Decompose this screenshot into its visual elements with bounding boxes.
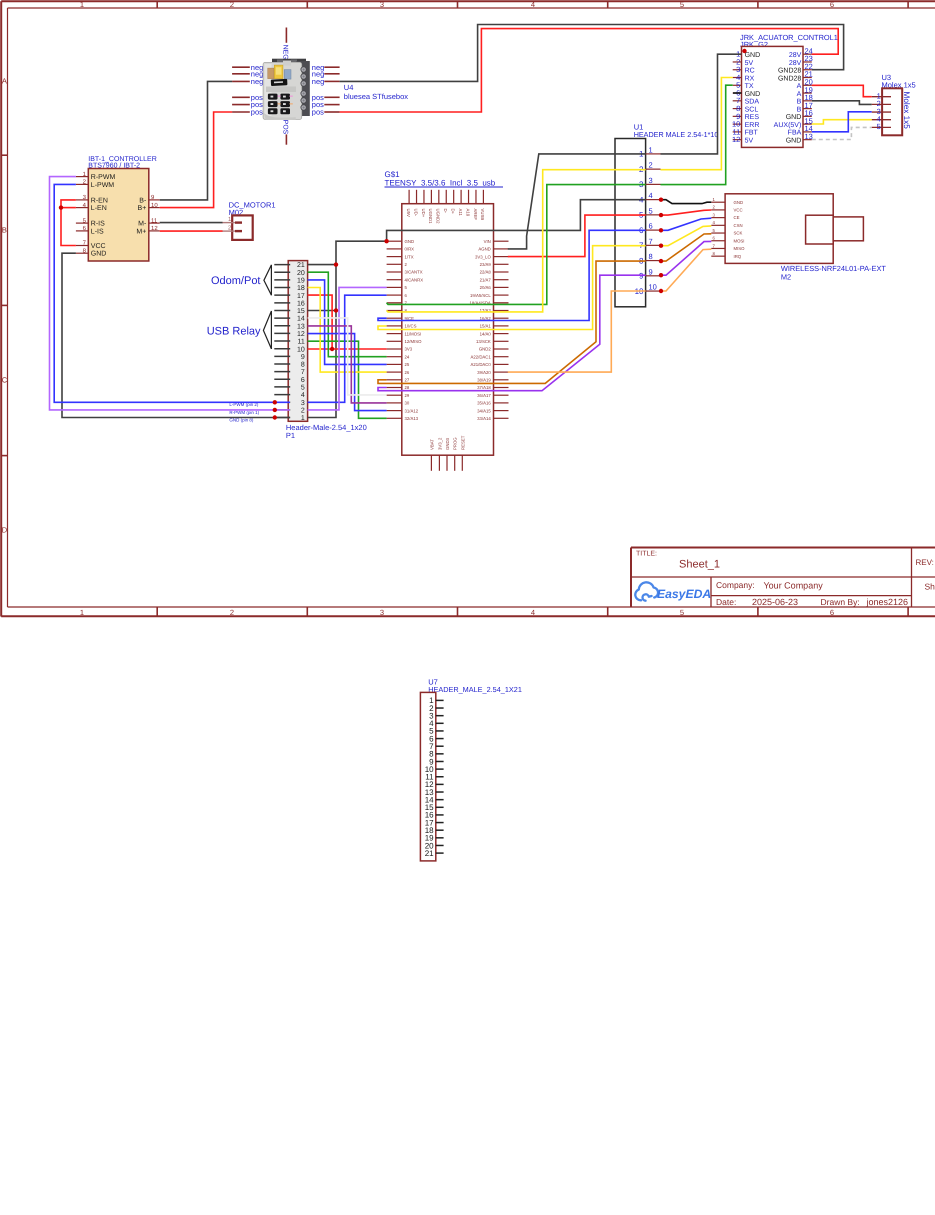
- svg-text:RES: RES: [745, 114, 760, 121]
- svg-text:PROG: PROG: [453, 437, 458, 450]
- svg-text:UGND1: UGND1: [428, 209, 433, 225]
- svg-text:0/RX: 0/RX: [405, 247, 415, 252]
- svg-text:19/A5/SCL: 19/A5/SCL: [470, 293, 491, 298]
- svg-text:Drawn By:: Drawn By:: [821, 597, 860, 607]
- svg-text:3: 3: [301, 400, 305, 407]
- svg-text:1: 1: [80, 0, 84, 9]
- svg-text:4: 4: [301, 392, 305, 399]
- svg-text:16: 16: [297, 300, 305, 307]
- svg-text:Sheet_1: Sheet_1: [679, 558, 720, 570]
- svg-text:Your Company: Your Company: [764, 581, 824, 591]
- svg-text:33/A14: 33/A14: [477, 416, 491, 421]
- svg-text:10: 10: [297, 346, 305, 353]
- svg-text:4: 4: [531, 608, 535, 617]
- svg-text:5: 5: [680, 608, 684, 617]
- svg-text:FBA: FBA: [788, 130, 802, 137]
- svg-text:5: 5: [649, 206, 653, 215]
- svg-text:6: 6: [830, 608, 834, 617]
- svg-text:6: 6: [301, 377, 305, 384]
- svg-text:38/A19: 38/A19: [477, 378, 491, 383]
- svg-text:TITLE:: TITLE:: [636, 551, 657, 558]
- svg-text:B+: B+: [138, 205, 147, 212]
- svg-text:AUX(5V): AUX(5V): [774, 121, 802, 129]
- svg-text:35/A16: 35/A16: [477, 401, 491, 406]
- svg-text:B: B: [2, 226, 7, 235]
- svg-text:10: 10: [649, 283, 657, 292]
- svg-text:31/A12: 31/A12: [405, 408, 419, 413]
- svg-text:18: 18: [297, 285, 305, 292]
- svg-text:AGND: AGND: [478, 247, 490, 252]
- svg-text:L-EN: L-EN: [91, 205, 107, 212]
- svg-text:M-: M-: [138, 221, 147, 228]
- svg-text:26: 26: [405, 370, 410, 375]
- svg-text:EasyEDA: EasyEDA: [657, 587, 711, 601]
- svg-text:3V3_2: 3V3_2: [437, 437, 442, 450]
- svg-text:4/CANRX: 4/CANRX: [405, 277, 424, 282]
- svg-text:VCC: VCC: [734, 208, 743, 213]
- svg-text:7: 7: [301, 369, 305, 376]
- svg-text:C: C: [2, 376, 8, 385]
- svg-text:8: 8: [301, 362, 305, 369]
- svg-text:TX: TX: [745, 83, 754, 90]
- svg-text:M+: M+: [136, 228, 146, 235]
- svg-text:20/A6: 20/A6: [480, 285, 492, 290]
- svg-text:IRQ: IRQ: [734, 254, 742, 259]
- svg-text:L-PWM: L-PWM: [91, 182, 115, 189]
- svg-text:AREF: AREF: [473, 209, 478, 221]
- svg-text:25: 25: [405, 362, 410, 367]
- svg-text:24: 24: [405, 354, 410, 359]
- svg-text:29: 29: [405, 393, 410, 398]
- svg-text:L-IS: L-IS: [91, 228, 104, 235]
- svg-text:Odom/Pot: Odom/Pot: [211, 275, 261, 287]
- svg-text:36/A17: 36/A17: [477, 393, 491, 398]
- svg-text:R-IS: R-IS: [91, 221, 105, 228]
- svg-text:4: 4: [531, 0, 535, 9]
- svg-text:GND3: GND3: [445, 437, 450, 450]
- svg-text:13: 13: [297, 323, 305, 330]
- svg-text:6: 6: [830, 0, 834, 9]
- svg-text:A: A: [797, 91, 802, 98]
- svg-text:6: 6: [649, 222, 653, 231]
- svg-text:R-PWM: R-PWM: [91, 174, 116, 181]
- svg-text:12: 12: [151, 225, 158, 232]
- svg-text:pos: pos: [312, 108, 324, 117]
- svg-text:37/A18: 37/A18: [477, 385, 491, 390]
- svg-text:CSN: CSN: [734, 223, 743, 228]
- svg-text:MISO: MISO: [734, 246, 746, 251]
- svg-text:27: 27: [405, 378, 410, 383]
- svg-text:GND2: GND2: [479, 347, 492, 352]
- svg-text:21: 21: [425, 849, 434, 858]
- svg-text:MOSI: MOSI: [734, 238, 745, 243]
- svg-text:A21/DAC0: A21/DAC0: [470, 362, 491, 367]
- svg-text:9: 9: [301, 354, 305, 361]
- svg-text:7: 7: [649, 237, 653, 246]
- svg-text:11: 11: [298, 339, 305, 346]
- svg-text:1/TX: 1/TX: [405, 254, 414, 259]
- svg-text:15/A1: 15/A1: [480, 324, 492, 329]
- svg-text:34/A15: 34/A15: [477, 408, 491, 413]
- svg-text:1: 1: [301, 415, 305, 422]
- svg-text:10/CS: 10/CS: [405, 324, 417, 329]
- svg-text:RX: RX: [745, 75, 755, 82]
- svg-text:neg: neg: [251, 77, 264, 86]
- svg-text:28V: 28V: [789, 52, 802, 59]
- svg-text:5V: 5V: [745, 60, 754, 67]
- svg-text:VIN: VIN: [484, 239, 491, 244]
- svg-text:39/A20: 39/A20: [477, 370, 491, 375]
- svg-text:11: 11: [151, 217, 158, 224]
- svg-text:28: 28: [405, 385, 410, 390]
- svg-text:D: D: [2, 526, 8, 535]
- svg-text:RESET: RESET: [460, 435, 465, 450]
- svg-text:D-: D-: [443, 209, 448, 214]
- svg-text:A11: A11: [458, 209, 463, 217]
- svg-text:Molex 1x5: Molex 1x5: [902, 92, 911, 130]
- svg-text:USB Relay: USB Relay: [207, 325, 261, 337]
- svg-text:GND: GND: [745, 52, 761, 59]
- svg-text:A10: A10: [465, 209, 470, 217]
- svg-text:RC: RC: [745, 68, 755, 75]
- svg-text:GND: GND: [405, 239, 415, 244]
- svg-text:GND: GND: [786, 114, 802, 121]
- svg-text:8: 8: [649, 252, 653, 261]
- svg-text:2025-06-23: 2025-06-23: [752, 597, 798, 607]
- svg-text:15: 15: [297, 308, 305, 315]
- svg-text:POS: POS: [281, 120, 288, 135]
- svg-text:R-EN: R-EN: [91, 197, 108, 204]
- svg-text:VBAT: VBAT: [429, 439, 434, 450]
- svg-text:28V: 28V: [789, 60, 802, 67]
- svg-text:U4: U4: [344, 83, 354, 92]
- svg-text:D+: D+: [450, 209, 455, 215]
- svg-text:GND28: GND28: [778, 75, 801, 82]
- svg-text:17: 17: [297, 293, 305, 300]
- svg-text:B: B: [797, 106, 802, 113]
- svg-text:4: 4: [649, 191, 653, 200]
- svg-text:3: 3: [649, 176, 653, 185]
- svg-text:SCL: SCL: [745, 106, 759, 113]
- svg-text:neg: neg: [312, 77, 325, 86]
- svg-text:3: 3: [380, 0, 384, 9]
- svg-text:A: A: [797, 83, 802, 90]
- svg-text:P1: P1: [286, 431, 295, 440]
- svg-text:1: 1: [649, 145, 653, 154]
- svg-text:12: 12: [732, 135, 740, 144]
- svg-text:pos: pos: [251, 108, 263, 117]
- svg-text:A: A: [2, 77, 7, 86]
- svg-text:B: B: [797, 99, 802, 106]
- svg-text:9: 9: [639, 272, 644, 281]
- svg-text:21/A7: 21/A7: [480, 277, 492, 282]
- svg-text:CE: CE: [734, 215, 740, 220]
- svg-text:2: 2: [301, 407, 305, 414]
- svg-text:5V: 5V: [745, 137, 754, 144]
- svg-text:20: 20: [297, 270, 305, 277]
- svg-text:SCK: SCK: [734, 231, 743, 236]
- svg-text:ERR: ERR: [745, 122, 760, 129]
- svg-text:GND: GND: [91, 251, 107, 258]
- svg-text:32/A13: 32/A13: [405, 416, 419, 421]
- svg-text:FBT: FBT: [745, 130, 759, 137]
- svg-text:GND: GND: [745, 91, 761, 98]
- svg-text:21: 21: [297, 262, 305, 269]
- svg-text:5: 5: [680, 0, 684, 9]
- svg-text:13/SCK: 13/SCK: [476, 339, 491, 344]
- svg-text:GND: GND: [734, 200, 744, 205]
- svg-text:10: 10: [151, 202, 158, 209]
- svg-text:HEADER_MALE_2.54_1X21: HEADER_MALE_2.54_1X21: [428, 685, 522, 694]
- svg-text:UGND2: UGND2: [436, 209, 441, 225]
- svg-text:TEENSY_3.5/3.6_Incl_3.5_usb: TEENSY_3.5/3.6_Incl_3.5_usb: [385, 178, 496, 187]
- svg-text:GND: GND: [786, 137, 802, 144]
- svg-text:9: 9: [649, 267, 653, 276]
- svg-text:12: 12: [297, 331, 305, 338]
- svg-text:30: 30: [405, 401, 410, 406]
- svg-text:HEADER MALE 2.54-1*10: HEADER MALE 2.54-1*10: [634, 130, 719, 139]
- svg-text:Date:: Date:: [716, 597, 736, 607]
- svg-text:1: 1: [80, 608, 84, 617]
- svg-text:14: 14: [297, 316, 305, 323]
- svg-text:13: 13: [805, 132, 813, 141]
- svg-text:M2: M2: [781, 273, 791, 282]
- svg-text:5: 5: [301, 385, 305, 392]
- svg-text:REV:: REV:: [916, 558, 934, 567]
- svg-text:3V3_LO: 3V3_LO: [475, 254, 491, 259]
- svg-text:UD+: UD+: [421, 209, 426, 218]
- svg-text:3: 3: [380, 608, 384, 617]
- svg-text:GND28: GND28: [778, 68, 801, 75]
- svg-text:22/A8: 22/A8: [480, 270, 492, 275]
- svg-text:bluesea STfusebox: bluesea STfusebox: [344, 92, 408, 101]
- svg-text:Sheet: Sheet: [925, 582, 935, 592]
- svg-text:UD-: UD-: [413, 209, 418, 217]
- svg-text:12/MISO: 12/MISO: [405, 339, 423, 344]
- svg-text:2: 2: [230, 608, 234, 617]
- svg-text:Company:: Company:: [716, 580, 755, 590]
- svg-text:14/A0: 14/A0: [480, 331, 492, 336]
- svg-text:jones2126: jones2126: [866, 597, 909, 607]
- svg-text:A22/DAC1: A22/DAC1: [470, 354, 491, 359]
- svg-text:NEG: NEG: [281, 45, 288, 60]
- svg-text:5: 5: [877, 122, 881, 131]
- svg-text:11/MOSI: 11/MOSI: [405, 331, 422, 336]
- svg-text:Header-Male-2.54_1x20: Header-Male-2.54_1x20: [286, 423, 367, 432]
- svg-text:3V3: 3V3: [405, 347, 413, 352]
- svg-text:VCC: VCC: [91, 243, 106, 250]
- svg-text:23/A9: 23/A9: [480, 262, 492, 267]
- svg-text:19: 19: [297, 277, 305, 284]
- svg-text:VUSB: VUSB: [480, 209, 485, 221]
- svg-text:U5V: U5V: [406, 209, 411, 217]
- svg-text:3/CANTX: 3/CANTX: [405, 270, 423, 275]
- svg-text:B-: B-: [139, 197, 147, 204]
- svg-text:2: 2: [649, 161, 653, 170]
- svg-text:SDA: SDA: [745, 99, 760, 106]
- svg-text:WIRELESS-NRF24L01-PA-EXT: WIRELESS-NRF24L01-PA-EXT: [781, 264, 886, 273]
- svg-text:2: 2: [230, 0, 234, 9]
